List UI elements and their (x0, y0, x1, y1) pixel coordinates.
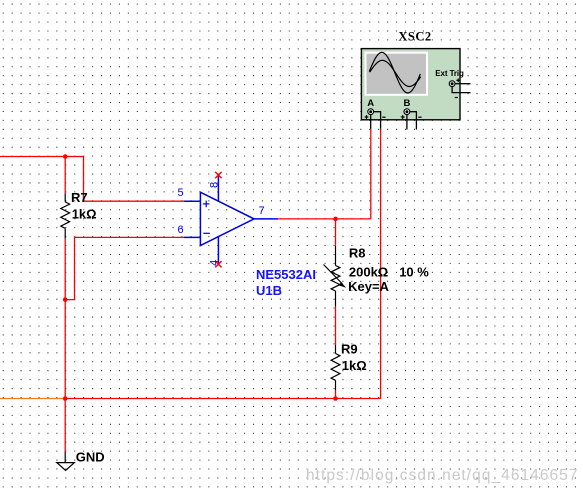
svg-text:GND: GND (76, 450, 105, 465)
svg-text:B: B (403, 98, 410, 109)
svg-text:U1B: U1B (256, 283, 282, 298)
svg-text:4: 4 (209, 260, 221, 266)
svg-text:NE5532AI: NE5532AI (256, 267, 316, 282)
svg-text:Key=A: Key=A (348, 279, 389, 294)
svg-text:R9: R9 (341, 342, 358, 357)
svg-text:XSC2: XSC2 (398, 30, 431, 44)
svg-text:A: A (367, 98, 374, 109)
svg-text:1kΩ: 1kΩ (342, 358, 367, 373)
svg-text:7: 7 (259, 205, 265, 217)
svg-text:6: 6 (178, 224, 184, 236)
svg-text:8: 8 (209, 182, 221, 188)
svg-text:Ext Trig: Ext Trig (435, 69, 464, 78)
svg-text:R8: R8 (349, 246, 366, 261)
svg-text:1kΩ: 1kΩ (72, 206, 97, 221)
svg-text:5: 5 (178, 187, 184, 199)
svg-text:200kΩ: 200kΩ (349, 264, 388, 279)
svg-text:https://blog.csdn.net/qq_46146: https://blog.csdn.net/qq_46146657 (306, 467, 579, 484)
svg-text:10 %: 10 % (399, 264, 429, 279)
svg-text:R7: R7 (71, 190, 88, 205)
